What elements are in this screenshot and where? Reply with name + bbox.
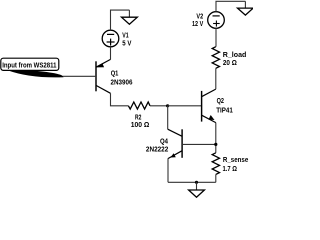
label R_load 20 ohm [223, 50, 247, 67]
wire Q4 emitter to bottom rail [167, 159, 169, 183]
label V2 12 V [192, 12, 203, 28]
svg-text:12 V: 12 V [192, 19, 203, 28]
svg-text:2N2222: 2N2222 [146, 144, 168, 153]
voltage source V2 [208, 12, 225, 29]
wire node A to Q2 base [168, 105, 202, 107]
svg-text:Q1: Q1 [111, 69, 119, 78]
label Q4 2N2222 [146, 137, 168, 154]
label R_sense 1.7 ohm [223, 155, 249, 173]
resistor R2 [128, 102, 150, 109]
wire Q2 collector to R_load [215, 68, 217, 89]
wire R_sense bottom to rail [215, 174, 217, 182]
wire V2 top to ground [216, 1, 245, 11]
node B junction dot [214, 143, 217, 146]
transistor Q4 2N2222 [168, 129, 216, 158]
svg-text:1.7 Ω: 1.7 Ω [223, 164, 238, 173]
wire Q1 collector to R2 [111, 93, 129, 106]
ground bottom [189, 182, 205, 197]
node C junction dot [195, 181, 198, 184]
ground for V1 [122, 10, 138, 24]
wire V2 bottom to R_load [215, 28, 217, 46]
wire R2 to node A [150, 105, 168, 107]
svg-text:5 V: 5 V [122, 39, 131, 48]
node A junction dot [166, 104, 169, 107]
annotation callout Input from WS2811 [1, 58, 64, 77]
label Q1 2N3906 [111, 69, 133, 87]
resistor R_load [212, 47, 219, 69]
label V1 5 V [122, 30, 131, 47]
wire V1 top to ground [111, 10, 130, 30]
svg-text:100 Ω: 100 Ω [131, 120, 150, 129]
svg-text:Input from WS2811: Input from WS2811 [2, 61, 56, 70]
svg-text:R_sense: R_sense [223, 155, 248, 164]
svg-text:Q2: Q2 [217, 96, 224, 105]
label Q2 TIP41 [216, 96, 233, 114]
label R2 100 ohm [131, 113, 150, 130]
transistor Q2 TIP41 [202, 89, 216, 123]
svg-text:20 Ω: 20 Ω [223, 58, 237, 67]
wire Q2 emitter down to node B [215, 123, 217, 153]
transistor Q1 2N3906 [63, 59, 111, 93]
wire node A down to Q4 collector [167, 106, 169, 129]
svg-text:TIP41: TIP41 [216, 105, 233, 114]
svg-text:2N3906: 2N3906 [111, 78, 133, 87]
resistor R_sense [212, 153, 219, 175]
ground for V2 [238, 1, 254, 15]
wire V1 bottom to Q1 emitter [110, 47, 112, 60]
voltage source V1 [102, 30, 119, 47]
wire bottom rail [168, 181, 216, 183]
